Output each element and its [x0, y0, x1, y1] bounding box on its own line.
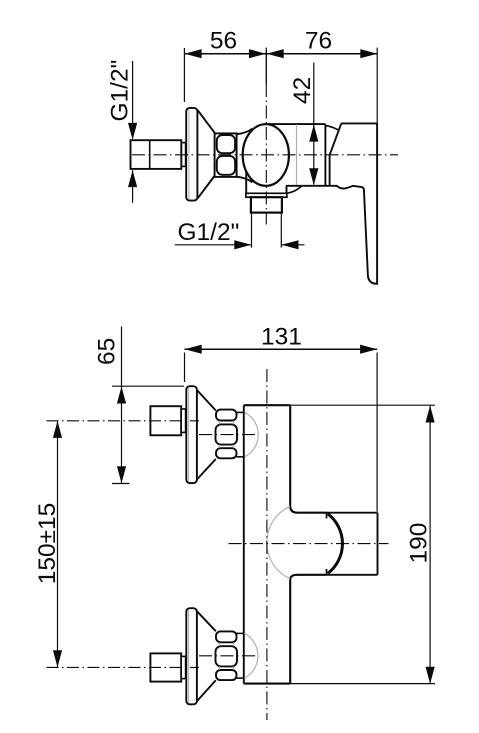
extension line left (56)	[183, 48, 185, 102]
body top edge	[244, 404, 290, 406]
upper disc inner edge (grey)	[188, 388, 190, 481]
handle cap fillet arc	[325, 126, 338, 130]
body inner edge (grey)	[296, 125, 298, 186]
lower nut centerline	[199, 655, 256, 657]
svg-text:G1/2": G1/2"	[107, 60, 134, 122]
upper flare arc (grey)	[245, 412, 259, 456]
lower inlet pipe (front view)	[150, 653, 181, 681]
nut flat lower	[217, 156, 235, 175]
upper cone top edge	[197, 390, 216, 411]
lower nut bottom flat	[216, 670, 237, 680]
outlet leader line left	[175, 244, 251, 246]
body bottom edge	[244, 683, 290, 685]
svg-text:65: 65	[94, 338, 121, 365]
dim 150 line	[57, 421, 59, 667]
lower hex nut	[216, 631, 237, 642]
svg-text:131: 131	[261, 324, 302, 351]
dimension 56-76 line	[184, 53, 377, 55]
dim 131 line	[185, 348, 378, 350]
dim 190 line	[429, 406, 431, 684]
outlet leader line right	[282, 244, 305, 246]
bottom view horizontal centerline	[229, 543, 389, 545]
svg-text:G1/2": G1/2"	[178, 219, 240, 246]
svg-text:190: 190	[406, 523, 433, 564]
outlet thread extension left	[251, 213, 253, 248]
extension line right (76)	[376, 48, 378, 124]
lower flare tick bottom	[236, 677, 244, 679]
upper nut middle flat	[216, 424, 238, 444]
nut to body transition upper	[237, 129, 253, 135]
handle cap slant edge	[330, 123, 342, 155]
extension 190 top	[290, 404, 435, 406]
dim 131 right arrow	[360, 345, 377, 354]
body face lower	[290, 575, 326, 684]
inlet pipe (top view)	[131, 140, 182, 169]
outlet arrow left-pointing	[282, 240, 299, 249]
dim 150 down arrow	[53, 650, 62, 667]
body bottom edge	[286, 185, 338, 187]
lower disc inner edge (grey)	[188, 610, 190, 703]
body face upper	[290, 405, 326, 513]
bottom view vertical centerline	[266, 369, 268, 720]
knob right edge	[377, 513, 379, 575]
extension line middle (56/76)	[265, 48, 267, 84]
escutcheon disc inner edge (grey)	[188, 110, 190, 200]
dim 42 down arrow	[309, 168, 318, 185]
knob collar tick top	[326, 513, 328, 519]
lower cone bottom edge	[197, 680, 216, 701]
dim 190 down arrow	[426, 667, 435, 684]
lower pipe step	[181, 656, 185, 678]
dim 190 up arrow	[426, 406, 435, 423]
extension 65 bottom	[112, 483, 130, 485]
dim 76 right arrow	[360, 49, 377, 58]
escutcheon disc (top view)	[186, 108, 197, 201]
extension 65 top	[112, 385, 184, 387]
upper flare tick top	[236, 411, 244, 413]
upper nut gap connectors	[218, 421, 221, 425]
lower escutcheon disc	[186, 608, 197, 704]
hex nut outline (top view)	[215, 133, 237, 177]
upper hex nut	[216, 410, 237, 421]
top view vertical centerline	[265, 84, 267, 225]
upper cone bottom edge	[197, 459, 216, 480]
outlet collar	[246, 193, 287, 197]
lower nut gap connectors	[218, 642, 221, 646]
G1/2 leader line lower	[132, 170, 134, 203]
cone lower edge	[197, 175, 215, 199]
upper inlet pipe (front view)	[150, 406, 181, 435]
knob top edge	[327, 512, 378, 514]
body top edge	[264, 123, 325, 125]
svg-text:56: 56	[210, 28, 237, 55]
outlet neck right	[286, 186, 288, 194]
body left edge	[243, 405, 245, 683]
upper pipe centerline	[47, 420, 200, 422]
lower cone top edge	[197, 611, 216, 631]
upper escutcheon disc	[186, 386, 197, 483]
lower flare arc (grey)	[245, 633, 258, 678]
knob face arc (thick)	[328, 514, 343, 574]
handle cap lower edge	[329, 155, 331, 186]
lever blade	[337, 123, 377, 283]
svg-text:42: 42	[289, 77, 316, 104]
upper nut bottom flat	[216, 448, 237, 458]
upper flare tick bottom	[236, 456, 244, 458]
extension 190 bottom	[290, 683, 435, 685]
upper nut centerline	[199, 434, 256, 436]
outlet arrow right-pointing	[234, 240, 251, 249]
outlet neck left	[245, 172, 247, 193]
dim 56 left arrow	[185, 49, 202, 58]
dim 65 down arrow	[117, 466, 126, 483]
upper pipe step	[181, 409, 185, 432]
dim 65 up arrow	[117, 387, 126, 404]
pipe end step	[181, 143, 185, 167]
extension 131 left	[184, 353, 186, 383]
dim 131 left arrow	[185, 345, 202, 354]
lower pipe centerline	[47, 666, 200, 668]
dim 150 up arrow	[53, 421, 62, 438]
dim 42 up arrow	[309, 125, 318, 142]
G1/2 leader line upper	[132, 61, 134, 139]
dim 42 line	[313, 63, 315, 185]
outlet neck right arc	[287, 186, 301, 193]
nut to body transition lower	[237, 177, 253, 183]
G1/2 down arrow	[128, 123, 137, 140]
G1/2 up arrow	[128, 170, 137, 187]
cartridge dome arc (grey)	[267, 506, 290, 578]
knob collar tick bottom	[326, 569, 328, 575]
outlet hex section	[251, 197, 282, 212]
body right edge	[324, 124, 326, 186]
top view horizontal centerline	[132, 154, 398, 156]
pipe division line	[149, 140, 151, 169]
nut flat upper	[217, 135, 235, 153]
extension 131 right	[376, 353, 378, 512]
outlet thread extension right	[280, 213, 282, 248]
knob bottom edge	[327, 574, 378, 576]
svg-text:76: 76	[305, 28, 332, 55]
cone upper edge	[197, 110, 215, 134]
lower nut middle flat	[216, 646, 238, 666]
top view vertical centerline solid part	[265, 50, 267, 84]
valve body ellipse	[243, 124, 289, 186]
handle top edge	[341, 122, 377, 124]
lower flare tick top	[236, 632, 244, 634]
dim 65 line	[121, 327, 123, 484]
dim 56 right arrow	[249, 49, 266, 58]
dim 76 left arrow	[267, 49, 284, 58]
